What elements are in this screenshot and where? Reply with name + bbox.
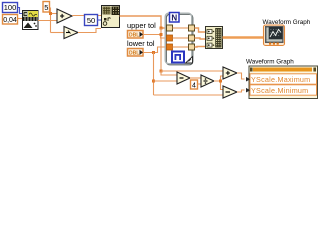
wire lower tol to loop tunnel — [143, 47, 166, 53]
svg-text:lower tol: lower tol — [127, 39, 155, 48]
junction dot — [160, 70, 163, 73]
tunnel left row3 — [167, 44, 173, 50]
wire loop out row2 to bundle — [195, 38, 206, 39]
resize glyph bottom right of loop — [186, 57, 193, 64]
junction dot — [160, 27, 163, 30]
bundle VI icon — [206, 27, 223, 49]
for loop frame — [165, 13, 193, 65]
wire blue 50 to noise VI — [98, 19, 102, 21]
tunnel right row3 — [189, 44, 195, 50]
property node frame — [249, 66, 318, 99]
wire lower tol branch down — [153, 53, 155, 96]
wire inside loop row2 — [173, 37, 189, 39]
wire A output to divide B — [190, 77, 201, 79]
subtract A — [177, 72, 190, 84]
svg-text:YScale.Minimum: YScale.Minimum — [251, 86, 308, 95]
wire add output to noise VI — [72, 15, 101, 17]
svg-text:50: 50 — [87, 16, 95, 25]
junction dot — [152, 80, 155, 83]
input arrow row1 — [246, 77, 250, 82]
iteration terminal i — [172, 52, 184, 63]
svg-text:DBL: DBL — [129, 33, 139, 39]
subtract D — [223, 86, 237, 98]
wire orange from constant 0.04 to VI — [18, 18, 22, 20]
svg-text:100: 100 — [4, 3, 17, 12]
svg-text:0,04: 0,04 — [3, 17, 17, 24]
wire loop out row1 to bundle — [195, 28, 206, 32]
tunnel right row2 — [189, 35, 195, 41]
wire down to subtract A top input — [161, 71, 177, 75]
wire bottom long to subtract D bottom input — [154, 94, 224, 96]
property row YScale.Minimum — [250, 85, 317, 95]
wire C output to property node row1 — [237, 73, 245, 79]
noise VI icon — [102, 6, 120, 28]
junction dot — [49, 12, 52, 15]
svg-text:DBL: DBL — [129, 51, 139, 57]
wire loop out row3 to bundle — [195, 46, 206, 49]
loop count terminal N — [170, 13, 180, 23]
wire inside loop row1 — [173, 27, 189, 29]
negate function — [64, 27, 78, 39]
svg-text:Waveform Graph: Waveform Graph — [246, 59, 294, 66]
svg-text:upper tol: upper tol — [127, 21, 156, 30]
junction dot — [219, 80, 222, 83]
triangle wave generator VI — [23, 11, 39, 30]
wire constant 4 to divide B — [198, 83, 202, 85]
wire from constant 5 down with branches — [50, 8, 51, 33]
wire to subtract A bottom input — [154, 80, 178, 82]
svg-text:YScale.Maximum: YScale.Maximum — [251, 75, 310, 84]
wire D output to property node row2 — [237, 90, 245, 92]
divide B — [201, 75, 214, 87]
input arrow row2 — [246, 88, 250, 93]
wire upper tol to loop tunnel — [143, 35, 166, 39]
waveform graph terminal — [264, 25, 285, 46]
constant 100 — [3, 3, 18, 13]
wire negate output to noise VI bottom input — [78, 29, 101, 33]
constant 4 — [191, 80, 198, 90]
constant 50 — [85, 15, 98, 26]
control terminal upper tol DBL — [128, 31, 144, 39]
add C — [223, 67, 237, 79]
wire inside loop row3 — [173, 46, 189, 48]
tunnel left row1 — [167, 25, 173, 31]
wire from VI output to add — [38, 20, 57, 22]
svg-text:4: 4 — [192, 83, 196, 90]
wire long to add C top input — [161, 70, 223, 72]
thick wire bundle to waveform graph terminal — [223, 36, 264, 39]
property row YScale.Maximum — [250, 74, 317, 84]
junction dot — [152, 51, 155, 54]
add function — [57, 9, 72, 23]
tunnel right row1 — [189, 25, 195, 31]
svg-text:5: 5 — [44, 3, 48, 12]
wire B output with branches — [214, 76, 223, 90]
constant 0.04 — [3, 15, 18, 25]
junction dot — [160, 33, 163, 36]
tunnel left row2 — [167, 35, 173, 41]
control terminal lower tol DBL — [128, 49, 144, 57]
wire blue from constant 100 to VI — [18, 8, 22, 14]
constant 5 — [43, 2, 50, 13]
wire signal from noise VI to loop tunnel, branches down — [120, 16, 167, 28]
wire signal branch down left of loop — [160, 28, 162, 71]
svg-text:N: N — [171, 13, 177, 22]
